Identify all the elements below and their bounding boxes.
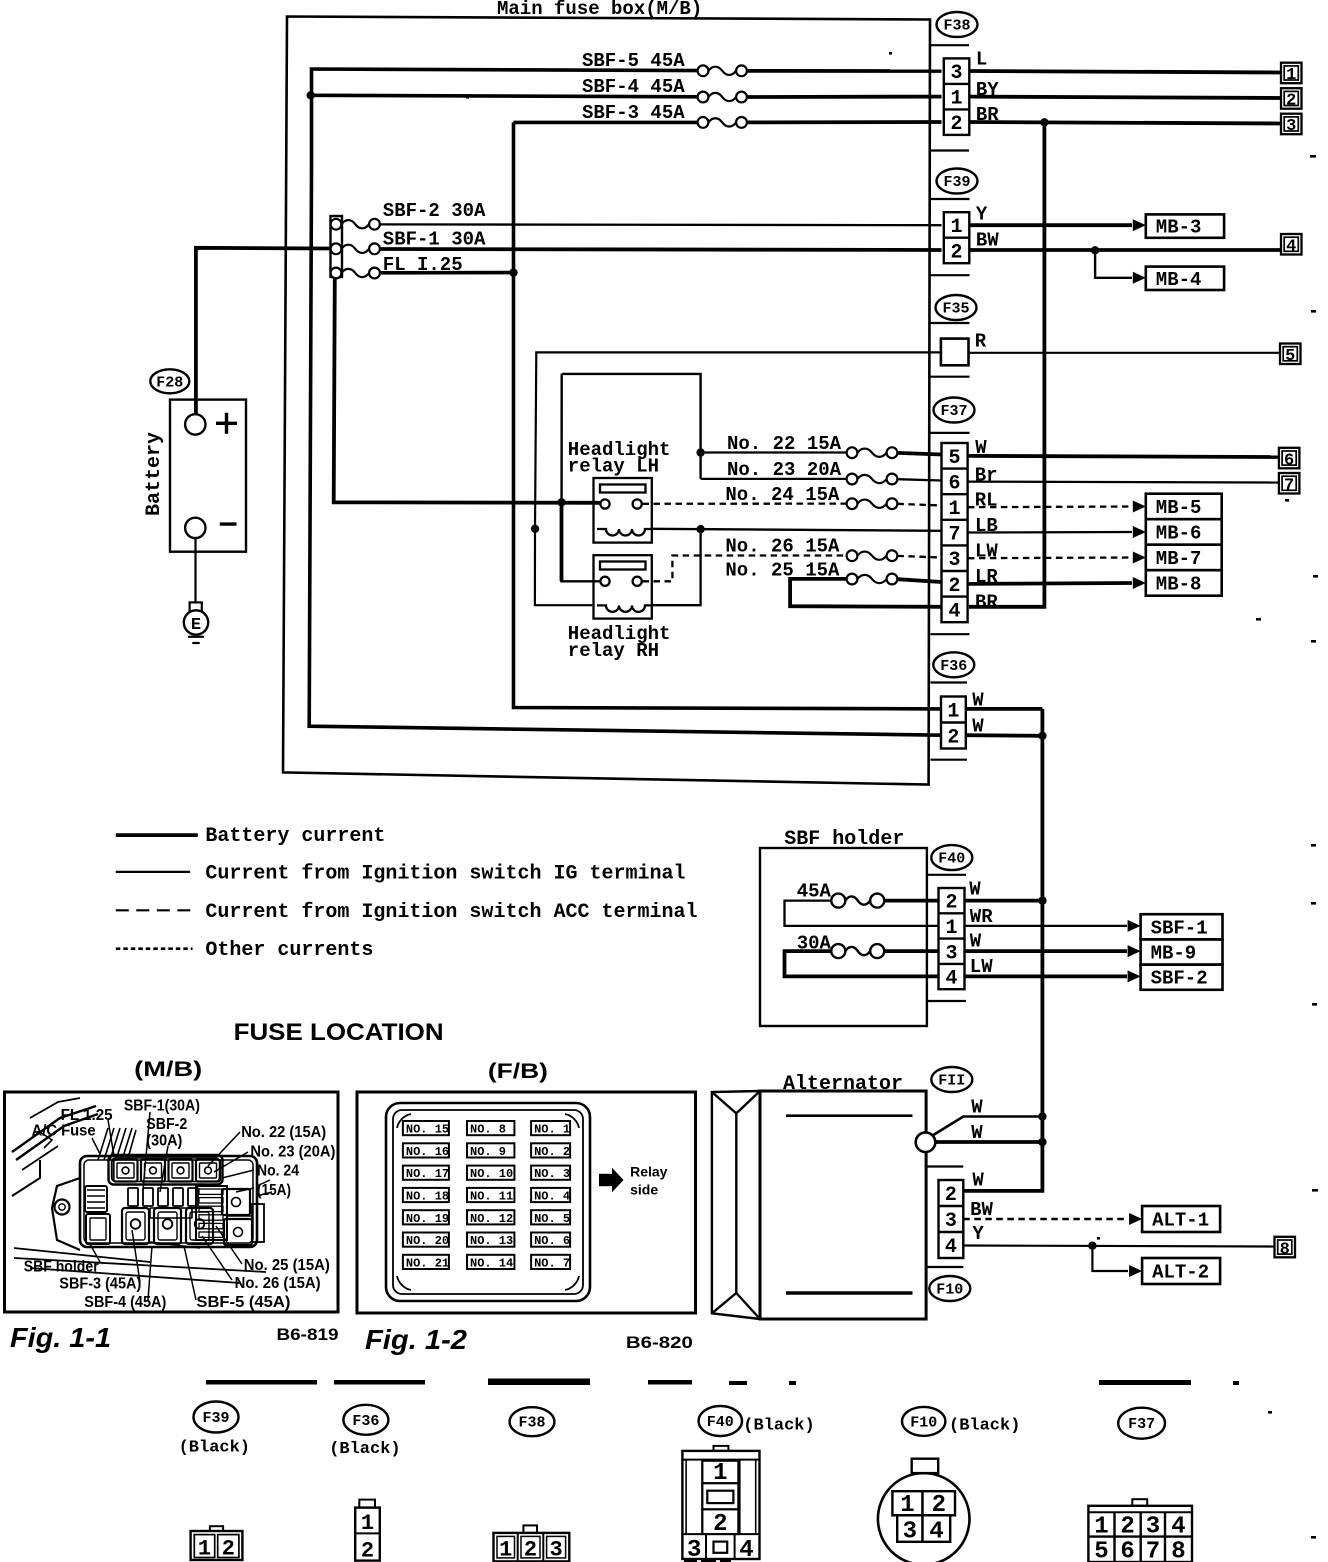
connector F38 pinout <box>510 1407 555 1436</box>
wire SBF-5 to F38 pin3 <box>747 69 942 73</box>
svg-text:F10: F10 <box>910 1414 937 1431</box>
svg-text:NO. 12: NO. 12 <box>470 1212 513 1226</box>
svg-text:SBF-2: SBF-2 <box>146 1116 187 1133</box>
wire SBF-4 <box>311 95 703 97</box>
label W <box>969 879 981 901</box>
node No.22 branch <box>696 448 704 456</box>
svg-text:Y: Y <box>972 1223 984 1245</box>
connector alternator pins <box>939 1180 964 1259</box>
svg-text:3: 3 <box>549 1538 562 1562</box>
svg-text:Y: Y <box>976 204 988 226</box>
connector F36 pins <box>941 697 966 750</box>
wire RL dashed to MB-5 <box>968 501 1146 513</box>
fig 1-2 fuse panel <box>386 1103 590 1301</box>
svg-text:2: 2 <box>951 113 963 136</box>
label FL I.25 <box>383 254 463 276</box>
svg-text:A/C Fuse: A/C Fuse <box>32 1123 96 1140</box>
node W junction <box>1038 1112 1046 1120</box>
fuse box MB-5 <box>1146 494 1222 520</box>
svg-text:4: 4 <box>739 1537 753 1562</box>
node W junction <box>1038 896 1046 904</box>
svg-text:5: 5 <box>949 447 961 470</box>
legend IG current <box>116 863 686 886</box>
fuse box ALT-2 <box>1142 1258 1220 1284</box>
wire FL to junction <box>380 271 514 275</box>
svg-text:E: E <box>191 616 201 635</box>
label Alternator <box>783 1073 903 1096</box>
svg-text:3: 3 <box>903 1519 917 1546</box>
svg-text:4: 4 <box>945 968 957 991</box>
svg-text:(Black): (Black) <box>329 1440 400 1459</box>
wire F36 pin2 W <box>966 733 1042 737</box>
svg-text:1: 1 <box>949 498 961 521</box>
svg-text:No. 26 (15A): No. 26 (15A) <box>235 1275 321 1292</box>
svg-text:FUSE LOCATION: FUSE LOCATION <box>234 1019 444 1046</box>
svg-text:Battery: Battery <box>143 432 166 516</box>
fuse box MB-9 <box>1141 939 1223 964</box>
svg-text:4: 4 <box>929 1519 943 1546</box>
svg-text:NO. 1: NO. 1 <box>534 1123 570 1137</box>
wire branch to MB-4 <box>1095 250 1146 283</box>
wire Y to terminal 8 <box>963 1246 1274 1247</box>
connector F40 pinout drawing <box>682 1446 759 1562</box>
fig label (15A) <box>257 1182 291 1199</box>
connector F37 pinout <box>1118 1408 1165 1439</box>
label Y <box>976 204 988 226</box>
connector F37 ticks <box>931 433 970 634</box>
label SBF holder <box>784 828 904 851</box>
svg-text:F40: F40 <box>707 1414 734 1431</box>
connector F36 ticks <box>931 683 968 760</box>
connector F39 <box>937 169 978 194</box>
svg-text:1: 1 <box>947 701 959 724</box>
svg-text:No. 24: No. 24 <box>257 1163 299 1180</box>
svg-text:(Black): (Black) <box>949 1417 1020 1436</box>
svg-text:F10: F10 <box>936 1282 963 1299</box>
label SBF-3 45A <box>582 102 685 124</box>
svg-text:6: 6 <box>1284 451 1294 470</box>
svg-text:4: 4 <box>949 600 961 623</box>
svg-text:F40: F40 <box>938 851 965 868</box>
fuse FL I.25 <box>331 268 380 279</box>
wire SBF-4 to F38 pin1 <box>747 95 942 99</box>
wire BR to terminal 3 <box>969 122 1281 124</box>
svg-text:RL: RL <box>975 490 998 512</box>
svg-text:Main fuse box(M/B): Main fuse box(M/B) <box>497 0 702 20</box>
svg-text:2: 2 <box>949 575 961 598</box>
fuse No.25 15A <box>847 574 898 585</box>
connector F40 clipped marks <box>684 1560 731 1562</box>
svg-text:F39: F39 <box>202 1410 229 1427</box>
wire BR vertical to F37 pin4 <box>969 122 1044 607</box>
svg-text:5: 5 <box>1285 347 1295 366</box>
svg-text:4: 4 <box>1286 237 1296 256</box>
label W <box>972 690 984 712</box>
label RL <box>975 490 998 512</box>
fig 1-2 label Relay side <box>630 1164 668 1198</box>
terminal 4 <box>1281 234 1302 256</box>
svg-text:Relay: Relay <box>630 1164 668 1180</box>
svg-text:NO. 15: NO. 15 <box>406 1123 449 1137</box>
fuse SBF-3 45A <box>698 117 747 128</box>
label No. 23 20A <box>727 459 842 481</box>
svg-text:3: 3 <box>1286 117 1296 136</box>
connector F39 pinout drawing <box>191 1526 243 1561</box>
label W <box>972 1170 984 1192</box>
svg-text:W: W <box>971 1122 983 1144</box>
wire LB to MB-6 <box>968 526 1146 538</box>
svg-text:NO. 18: NO. 18 <box>406 1190 449 1204</box>
wire No.22 fuse feed <box>701 451 847 453</box>
svg-text:6: 6 <box>1120 1539 1134 1562</box>
label BW <box>976 229 999 251</box>
wire Y to MB-3 <box>969 219 1146 231</box>
label No. 22 15A <box>727 433 842 455</box>
svg-text:1: 1 <box>951 88 963 111</box>
heading (F/B) <box>488 1060 548 1083</box>
svg-text:NO. 19: NO. 19 <box>406 1212 449 1226</box>
svg-text:SBF-2: SBF-2 <box>1151 968 1208 990</box>
ground E <box>184 602 208 643</box>
connector F38 pins <box>944 58 970 136</box>
terminal 1 <box>1281 63 1302 85</box>
wire W horizontal <box>935 1140 1042 1144</box>
label SBF-1 30A <box>383 229 486 251</box>
svg-text:NO. 20: NO. 20 <box>406 1234 449 1248</box>
legend battery current <box>116 825 386 848</box>
wire No.24 dashed to F37 pin1 <box>897 504 941 506</box>
svg-text:1: 1 <box>198 1537 211 1562</box>
svg-text:F37: F37 <box>1128 1416 1155 1433</box>
svg-text:No. 25 15A: No. 25 15A <box>725 560 840 582</box>
label Main fuse box (M/B) <box>497 0 702 20</box>
label SBF-4 45A <box>582 76 685 98</box>
svg-text:FII: FII <box>938 1073 965 1090</box>
svg-text:No. 23 (20A): No. 23 (20A) <box>250 1144 335 1161</box>
wire LB from relay LH coil <box>652 529 942 531</box>
wire relay feed thick lower <box>560 502 564 581</box>
connector F38 pinout drawing <box>494 1525 570 1562</box>
svg-text:NO. 7: NO. 7 <box>534 1256 570 1270</box>
wire No.24 dashed from relay LH <box>643 502 848 504</box>
svg-text:1: 1 <box>1094 1514 1108 1541</box>
node F36 junction <box>1038 732 1046 740</box>
label 30A <box>797 932 832 954</box>
connector F37 pinout drawing <box>1088 1499 1192 1562</box>
svg-text:NO. 11: NO. 11 <box>470 1190 513 1204</box>
wire relay feed junction vertical <box>562 374 605 581</box>
label LW <box>970 956 993 978</box>
fuse box MB-7 <box>1146 545 1222 571</box>
relay K2 Headlight relay RH <box>594 555 652 618</box>
scan specks <box>466 52 1318 1539</box>
legend ACC current <box>116 901 698 924</box>
connector F40 ticks <box>927 875 966 1001</box>
svg-text:F39: F39 <box>943 174 970 191</box>
fuse No.24 15A <box>847 498 898 509</box>
svg-text:B6-819: B6-819 <box>277 1325 339 1344</box>
wire SBF-5 left corner <box>312 69 704 170</box>
svg-text:NO. 14: NO. 14 <box>470 1256 513 1270</box>
connector F39 pinout <box>179 1402 250 1458</box>
svg-text:MB-3: MB-3 <box>1156 217 1202 239</box>
svg-text:SBF-5 (45A): SBF-5 (45A) <box>196 1294 290 1311</box>
svg-text:F28: F28 <box>156 374 183 391</box>
svg-text:1: 1 <box>361 1511 374 1536</box>
svg-text:WR: WR <box>970 906 993 928</box>
label Br <box>975 465 998 487</box>
label WR <box>970 906 993 928</box>
svg-text:MB-7: MB-7 <box>1156 548 1202 570</box>
fuse SBF-5 45A <box>698 65 747 76</box>
fig label No. 25 (15A) <box>244 1257 330 1274</box>
alternator ticks <box>926 1167 963 1268</box>
label No. 24 15A <box>725 484 840 506</box>
svg-text:F35: F35 <box>942 301 969 318</box>
fig label SBF-5 (45A) <box>196 1294 290 1311</box>
svg-text:45A: 45A <box>797 881 832 903</box>
wire BY to terminal 2 <box>969 97 1281 98</box>
svg-text:F36: F36 <box>940 658 967 675</box>
node relay coil LH junction <box>531 525 539 533</box>
main fuse box (M/B) outline <box>283 17 930 785</box>
svg-text:2: 2 <box>1286 92 1296 111</box>
svg-text:MB-9: MB-9 <box>1151 943 1197 965</box>
label BY <box>976 79 999 101</box>
wire R line from F35 down to relay coils <box>535 352 941 528</box>
wire SBF-1 to F39 pin2 <box>380 249 942 250</box>
svg-text:SBF-3 (45A): SBF-3 (45A) <box>59 1276 141 1293</box>
label LR <box>975 566 998 588</box>
svg-text:SBF-1(30A): SBF-1(30A) <box>124 1098 200 1115</box>
fuse SBF 30A <box>831 944 884 958</box>
alternator terminal circle <box>916 1132 936 1152</box>
label BW <box>970 1199 993 1221</box>
label Y <box>972 1223 984 1245</box>
fig 1-2 relay side arrow <box>599 1168 624 1192</box>
label L <box>976 49 987 71</box>
label W <box>970 930 982 952</box>
svg-text:No. 23 20A: No. 23 20A <box>727 459 842 481</box>
svg-text:MB-8: MB-8 <box>1156 573 1202 595</box>
alternator inner lines <box>786 1116 913 1293</box>
svg-text:NO. 8: NO. 8 <box>470 1123 506 1137</box>
svg-text:2: 2 <box>1120 1514 1134 1541</box>
svg-text:NO. 10: NO. 10 <box>470 1167 513 1181</box>
svg-text:6: 6 <box>949 472 961 495</box>
wire SBF-2 to F39 pin1 <box>380 223 942 226</box>
svg-text:7: 7 <box>1146 1539 1160 1562</box>
wire No.25 loop from F37 pin4 <box>790 579 941 607</box>
connector F40 pins <box>939 888 965 991</box>
label No. 26 15A <box>725 536 840 558</box>
svg-text:1: 1 <box>945 917 957 940</box>
terminal 6 <box>1279 448 1300 470</box>
svg-text:F38: F38 <box>518 1415 545 1432</box>
svg-text:SBF holder: SBF holder <box>24 1259 99 1276</box>
label W <box>972 716 984 738</box>
svg-text:R: R <box>975 331 987 353</box>
wire 45A to F40 pin2 <box>885 899 939 903</box>
svg-text:side: side <box>630 1182 658 1198</box>
svg-text:MB-4: MB-4 <box>1156 269 1202 291</box>
fig label SBF-2 <box>146 1116 187 1133</box>
svg-text:2: 2 <box>945 892 957 915</box>
node relay feed junction <box>557 498 565 506</box>
wire 45A loop <box>785 901 939 926</box>
node BR junction <box>1040 118 1048 126</box>
wire LW to SBF-2 <box>965 970 1141 982</box>
wire L to terminal 1 <box>969 71 1281 73</box>
svg-text:SBF-4 (45A): SBF-4 (45A) <box>84 1294 166 1311</box>
relay K1 Headlight relay LH <box>594 478 652 543</box>
svg-text:8: 8 <box>1171 1539 1185 1562</box>
heading (M/B) <box>134 1058 202 1081</box>
connector F36 <box>933 652 974 677</box>
connector F10 <box>929 1276 970 1301</box>
label W <box>971 1096 983 1118</box>
svg-text:No. 24 15A: No. 24 15A <box>725 484 840 506</box>
svg-text:NO. 4: NO. 4 <box>534 1190 570 1204</box>
fig label SBF-4 (45A) <box>84 1294 166 1311</box>
connector F35 ticks <box>931 323 970 377</box>
svg-text:Br: Br <box>975 465 998 487</box>
fig label SBF-1(30A) <box>124 1098 200 1115</box>
svg-text:(15A): (15A) <box>257 1182 291 1199</box>
svg-text:(M/B): (M/B) <box>134 1058 202 1081</box>
connector F39 pins <box>944 212 970 264</box>
svg-text:SBF-4 45A: SBF-4 45A <box>582 76 685 98</box>
wire W diagonal <box>933 1117 1043 1136</box>
fig label No. 26 (15A) <box>235 1275 321 1292</box>
fuse box MB-6 <box>1146 519 1222 545</box>
label LB <box>975 515 998 537</box>
wire No.22 to F37 pin5 <box>897 453 941 455</box>
svg-text:LW: LW <box>975 541 998 563</box>
fig caption B6-819 <box>277 1325 339 1344</box>
wire battery to SBF-1 <box>196 248 331 415</box>
wire No.26 dashed from relay RH <box>643 556 848 582</box>
fuse box ALT-1 <box>1142 1206 1220 1232</box>
svg-text:3: 3 <box>945 942 957 965</box>
label SBF-2 30A <box>383 200 486 222</box>
wire W to MB-9 <box>965 945 1141 957</box>
node BW junction <box>1091 246 1099 254</box>
svg-text:relay RH: relay RH <box>568 640 659 662</box>
wire LR to MB-8 <box>968 577 1146 589</box>
svg-text:Fig. 1-2: Fig. 1-2 <box>365 1324 467 1355</box>
svg-text:LB: LB <box>975 515 998 537</box>
connector F40 <box>931 845 972 870</box>
terminal 2 <box>1281 88 1302 110</box>
wire BW dashed to ALT-1 <box>963 1213 1142 1225</box>
svg-text:No. 25 (15A): No. 25 (15A) <box>244 1257 330 1274</box>
svg-text:Other currents: Other currents <box>205 939 373 962</box>
label No. 25 15A <box>725 560 840 582</box>
svg-text:ALT-2: ALT-2 <box>1152 1262 1209 1284</box>
svg-text:MB-5: MB-5 <box>1156 497 1202 519</box>
svg-text:3: 3 <box>951 62 963 85</box>
wire SBF-3 corner <box>514 121 704 125</box>
svg-text:3: 3 <box>945 1210 957 1233</box>
svg-text:(Black): (Black) <box>743 1417 814 1436</box>
wire No.22/23 loop top <box>562 374 701 479</box>
fuse box MB-8 <box>1146 570 1222 596</box>
connector F37 <box>934 398 975 423</box>
wire No.26 dashed to F37 pin3 <box>897 556 941 558</box>
svg-text:Fig. 1-1: Fig. 1-1 <box>10 1322 111 1353</box>
svg-text:No. 22 (15A): No. 22 (15A) <box>241 1124 326 1141</box>
wire No.23 fuse feed <box>701 478 847 480</box>
svg-text:F38: F38 <box>943 18 970 35</box>
svg-text:1: 1 <box>900 1492 914 1519</box>
svg-text:W: W <box>969 879 981 901</box>
battery B1 <box>143 400 246 552</box>
svg-text:BW: BW <box>976 229 999 251</box>
connector F38 <box>937 12 978 37</box>
svg-text:NO. 17: NO. 17 <box>406 1167 449 1181</box>
fuse box MB-3 <box>1146 214 1224 238</box>
svg-text:No. 26 15A: No. 26 15A <box>725 536 840 558</box>
connector F37 pins <box>942 443 968 623</box>
connector F36 pinout <box>329 1405 400 1459</box>
wire 30A loop <box>785 951 939 976</box>
alternator G1 body <box>760 1091 926 1319</box>
svg-text:BR: BR <box>975 591 998 613</box>
connector F35 pin <box>941 339 969 366</box>
svg-text:NO. 2: NO. 2 <box>534 1145 570 1159</box>
wire No.23 to F37 pin6 <box>897 479 941 480</box>
fig label (30A) <box>146 1133 182 1150</box>
svg-text:B6-820: B6-820 <box>626 1333 693 1352</box>
label LW <box>975 541 998 563</box>
fuse No.22 15A <box>847 447 898 458</box>
svg-text:1: 1 <box>499 1538 512 1562</box>
fig label SBF holder <box>24 1259 99 1276</box>
fuse SBF-1 30A <box>331 243 380 254</box>
svg-text:(Black): (Black) <box>179 1439 250 1458</box>
svg-text:2: 2 <box>951 241 963 264</box>
wire FL-bar down to relay feed <box>334 277 604 503</box>
label BR <box>975 591 998 613</box>
svg-text:5: 5 <box>1094 1539 1108 1562</box>
svg-text:1: 1 <box>1286 66 1296 85</box>
svg-text:4: 4 <box>945 1236 957 1259</box>
fig label A/C Fuse <box>32 1123 96 1140</box>
connector F28 <box>150 369 189 393</box>
svg-text:SBF-1: SBF-1 <box>1151 917 1208 939</box>
svg-text:2: 2 <box>713 1511 727 1538</box>
svg-text:F37: F37 <box>940 403 967 420</box>
wire Br to terminal 7 <box>968 481 1279 484</box>
svg-text:W: W <box>971 1096 983 1118</box>
node FL junction <box>509 268 517 276</box>
svg-text:W: W <box>970 930 982 952</box>
svg-text:1: 1 <box>713 1460 727 1487</box>
wire pin2 W <box>961 1189 966 1193</box>
svg-text:NO. 3: NO. 3 <box>534 1167 570 1181</box>
wire No.25 to F37 pin2 <box>897 579 941 582</box>
fig label No. 23 (20A) <box>250 1144 335 1161</box>
scan artifact dashes <box>206 1379 1239 1386</box>
svg-text:4: 4 <box>1171 1514 1185 1541</box>
node Y junction <box>1088 1242 1096 1250</box>
svg-text:2: 2 <box>945 1184 957 1207</box>
wire LW dashed to MB-7 <box>968 552 1146 564</box>
svg-text:NO. 16: NO. 16 <box>406 1145 449 1159</box>
fig 1-1 frame <box>5 1092 339 1312</box>
svg-text:1: 1 <box>951 216 963 239</box>
